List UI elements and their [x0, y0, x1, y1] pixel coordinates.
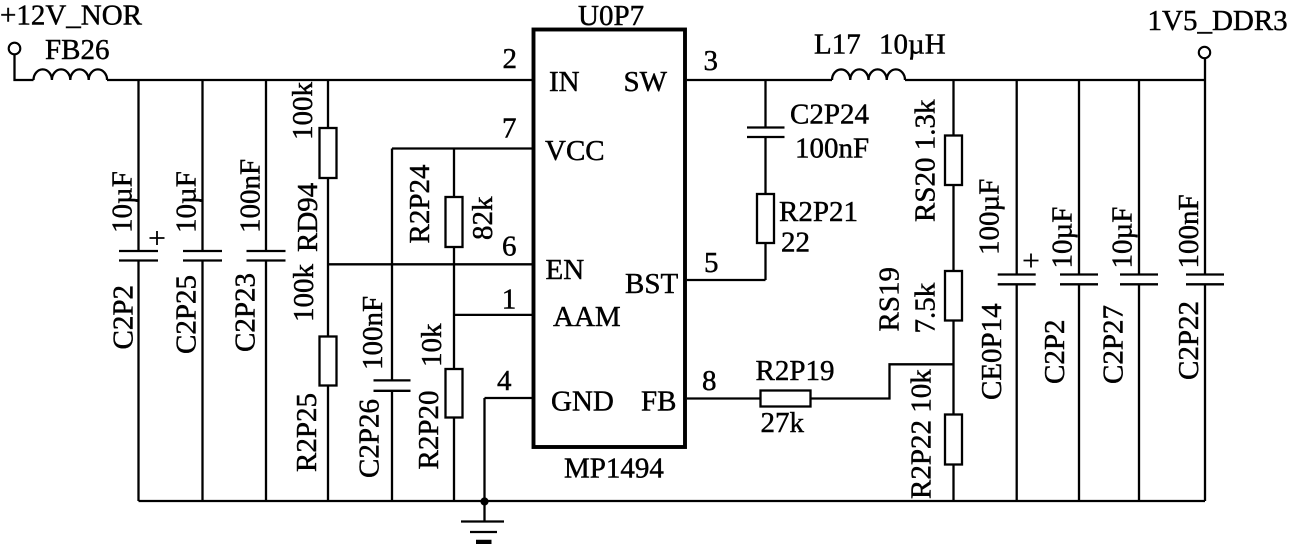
- svg-text:100nF: 100nF: [357, 296, 389, 370]
- svg-text:RD94: RD94: [292, 182, 324, 252]
- svg-text:BST: BST: [625, 268, 678, 300]
- svg-text:27k: 27k: [761, 407, 805, 439]
- svg-text:C2P22: C2P22: [1173, 301, 1205, 380]
- svg-text:3: 3: [704, 45, 719, 77]
- svg-text:C2P24: C2P24: [790, 99, 869, 131]
- capacitor C2P2: [107, 80, 165, 501]
- wire top rail right: [905, 58, 1205, 80]
- capacitor CE0P14: [974, 80, 1039, 501]
- svg-text:7.5k: 7.5k: [910, 282, 942, 333]
- wire FB net: [687, 397, 761, 399]
- ferrite bead FB26: [34, 69, 108, 80]
- svg-text:22: 22: [781, 227, 810, 259]
- svg-text:100µF: 100µF: [974, 179, 1006, 255]
- capacitor C2P26: [354, 149, 411, 502]
- svg-text:7: 7: [502, 113, 517, 145]
- wire GND pin net: [485, 398, 534, 501]
- wire BST net: [687, 279, 766, 281]
- svg-text:SW: SW: [624, 66, 668, 98]
- svg-text:+12V_NOR: +12V_NOR: [0, 0, 143, 32]
- resistor R2P22 10k: [906, 369, 963, 501]
- wire AAM net: [454, 314, 533, 316]
- svg-text:R2P22 10k: R2P22 10k: [906, 369, 938, 499]
- svg-text:R2P24: R2P24: [404, 164, 436, 243]
- svg-text:VCC: VCC: [545, 135, 605, 167]
- resistor RD94 100k: [287, 80, 337, 337]
- resistor R2P19 27k: [756, 355, 835, 439]
- svg-text:2: 2: [503, 43, 518, 75]
- capacitor C2P27: [1098, 80, 1159, 501]
- svg-text:6: 6: [502, 231, 517, 263]
- inductor L17: [832, 69, 905, 80]
- wire terminal stub left: [15, 55, 34, 81]
- ground: [461, 502, 504, 543]
- svg-text:10µF: 10µF: [107, 171, 139, 233]
- svg-text:C2P26: C2P26: [354, 399, 386, 478]
- svg-text:100k: 100k: [288, 264, 320, 323]
- svg-text:1V5_DDR3: 1V5_DDR3: [1148, 5, 1288, 37]
- wire top rail left: [107, 79, 533, 81]
- capacitor C2P22: [1173, 80, 1224, 501]
- svg-text:CE0P14: CE0P14: [976, 303, 1008, 400]
- svg-text:L17: L17: [814, 29, 861, 61]
- resistor R2P21 22: [757, 137, 858, 280]
- capacitor C2P2 (output): [1039, 80, 1098, 501]
- svg-text:R2P19: R2P19: [756, 355, 835, 387]
- svg-text:100nF: 100nF: [795, 133, 869, 165]
- regulator U0P7 MP1494: [534, 0, 686, 485]
- svg-text:1: 1: [502, 284, 517, 316]
- resistor RS19 7.5k: [874, 267, 963, 414]
- svg-text:AAM: AAM: [553, 301, 621, 333]
- wire SW rail: [687, 79, 832, 81]
- svg-text:RS20 1.3k: RS20 1.3k: [910, 99, 942, 222]
- wire VCC net: [392, 147, 533, 149]
- svg-text:IN: IN: [549, 66, 580, 98]
- svg-text:5: 5: [704, 247, 719, 279]
- svg-text:U0P7: U0P7: [578, 0, 644, 32]
- svg-text:8: 8: [702, 365, 717, 397]
- svg-text:GND: GND: [551, 386, 614, 418]
- svg-text:10µF: 10µF: [171, 171, 203, 233]
- terminal 1V5_DDR3: [1199, 47, 1210, 58]
- svg-text:EN: EN: [546, 254, 585, 286]
- resistor R2P25 100k: [288, 264, 337, 502]
- svg-text:100nF: 100nF: [235, 159, 267, 233]
- wire FB jog: [811, 364, 954, 398]
- svg-text:C2P2: C2P2: [1039, 320, 1071, 384]
- svg-text:100nF: 100nF: [1173, 194, 1205, 268]
- capacitor C2P24: [747, 80, 869, 165]
- svg-text:C2P27: C2P27: [1098, 305, 1130, 384]
- resistor R2P20 10k: [413, 323, 463, 501]
- svg-text:4: 4: [497, 365, 512, 397]
- svg-text:82k: 82k: [467, 196, 499, 240]
- svg-text:10k: 10k: [416, 323, 448, 367]
- svg-text:10µH: 10µH: [879, 29, 946, 61]
- svg-text:FB: FB: [641, 386, 676, 418]
- capacitor C2P25: [171, 80, 223, 501]
- svg-text:C2P25: C2P25: [171, 275, 203, 354]
- svg-text:R2P20: R2P20: [413, 391, 445, 470]
- svg-text:C2P23: C2P23: [230, 273, 262, 352]
- svg-text:R2P21: R2P21: [779, 196, 858, 228]
- capacitor C2P23: [230, 80, 286, 501]
- wire EN net: [328, 263, 533, 265]
- svg-text:R2P25: R2P25: [291, 393, 323, 472]
- resistor R2P24 82k: [404, 149, 499, 370]
- svg-text:C2P2: C2P2: [108, 285, 140, 349]
- svg-text:100k: 100k: [287, 82, 319, 141]
- wire bottom rail: [139, 500, 1206, 502]
- junction ground node: [480, 497, 488, 505]
- resistor RS20 1.3k: [910, 80, 963, 271]
- svg-text:MP1494: MP1494: [564, 453, 664, 485]
- svg-text:RS19: RS19: [874, 267, 906, 331]
- svg-text:FB26: FB26: [45, 34, 109, 66]
- svg-text:10µF: 10µF: [1107, 207, 1139, 269]
- terminal +12V_NOR: [9, 43, 21, 55]
- svg-text:10µF: 10µF: [1047, 207, 1079, 269]
